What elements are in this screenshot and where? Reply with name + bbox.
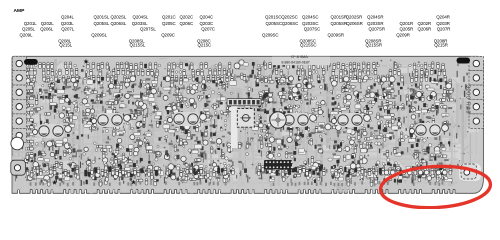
bottom-right terminal: [461, 164, 477, 179]
svg-text:Q205SC: Q205SC: [266, 21, 283, 26]
svg-text:Q205SR: Q205SR: [331, 21, 348, 26]
svg-text:Q215C: Q215C: [198, 42, 212, 47]
svg-text:Q215SC: Q215SC: [300, 42, 317, 47]
component leads: [15, 60, 468, 187]
svg-text:8-880-84180-0E8T: 8-880-84180-0E8T: [282, 61, 310, 65]
svg-text:Q205L: Q205L: [22, 27, 36, 32]
svg-text:Q207L: Q207L: [61, 27, 75, 32]
jumper top-left: [24, 59, 38, 65]
svg-text:Q204C: Q204C: [200, 15, 214, 20]
svg-text:Q207R: Q207R: [437, 27, 451, 32]
left terminal strip: [12, 56, 26, 142]
svg-text:Q215R: Q215R: [434, 42, 448, 47]
svg-text:Q215SL: Q215SL: [130, 42, 146, 47]
star mark 3: [308, 168, 313, 173]
channel SL circuitry: [82, 62, 164, 186]
svg-text:Q201C: Q201C: [162, 15, 176, 20]
svg-text:Q209SC: Q209SC: [262, 33, 279, 38]
svg-text:Q209SL: Q209SL: [91, 33, 107, 38]
svg-text:3000 RA8: 3000 RA8: [465, 85, 471, 114]
svg-text:Q203C: Q203C: [200, 21, 214, 26]
svg-text:Q203SL: Q203SL: [132, 21, 148, 26]
left resistor column: [27, 61, 33, 157]
svg-text:Q205C: Q205C: [162, 21, 176, 26]
svg-text:O* 8 9MA: O* 8 9MA: [291, 54, 308, 59]
svg-text:Q202C: Q202C: [180, 15, 194, 20]
svg-text:Q201R: Q201R: [400, 21, 414, 26]
svg-text:Q201SC: Q201SC: [265, 15, 282, 20]
svg-text:Q203SR: Q203SR: [367, 21, 384, 26]
svg-text:Q204SR: Q204SR: [367, 15, 384, 20]
svg-text:Q209L: Q209L: [20, 33, 34, 38]
svg-text:Q207C: Q207C: [201, 27, 215, 32]
svg-text:Q205SL: Q205SL: [94, 21, 110, 26]
svg-text:AMP: AMP: [14, 8, 26, 14]
svg-text:Q203L: Q203L: [61, 21, 75, 26]
channel C circuitry: [163, 62, 238, 185]
copper traces: [4, 58, 492, 195]
red highlight ellipse: [380, 164, 492, 211]
channel L circuitry: [24, 62, 82, 186]
star mark 4: [84, 59, 89, 64]
svg-text:Q202R: Q202R: [418, 21, 432, 26]
svg-text:Q206R: Q206R: [418, 27, 432, 32]
connector CN row: [227, 99, 261, 106]
svg-text:Q206C: Q206C: [180, 21, 194, 26]
bottom trace fingers: [16, 176, 448, 194]
svg-text:Q202SC: Q202SC: [281, 15, 298, 20]
star mark 1: [52, 180, 57, 185]
svg-text:Q206L: Q206L: [40, 27, 54, 32]
svg-text:Q201L: Q201L: [24, 21, 38, 26]
svg-text:Q206SR: Q206SR: [346, 21, 363, 26]
svg-text:Q215L: Q215L: [59, 42, 73, 47]
star mark 2: [131, 180, 136, 185]
svg-text:Q203SC: Q203SC: [302, 21, 319, 26]
svg-text:Q205R: Q205R: [400, 27, 414, 32]
silkscreen text clearance: [272, 57, 330, 66]
right terminal strip: [469, 56, 484, 128]
jumper top-right: [457, 58, 471, 64]
svg-text:Q206SL: Q206SL: [111, 21, 127, 26]
mounting hole: [11, 137, 24, 150]
svg-text:Q204L: Q204L: [61, 15, 75, 20]
svg-text:Q209SR: Q209SR: [328, 33, 345, 38]
svg-text:Q201SL: Q201SL: [94, 15, 110, 20]
svg-text:Q207SC: Q207SC: [304, 27, 321, 32]
svg-text:Q207SR: Q207SR: [369, 27, 386, 32]
electrolytic capacitor: [270, 112, 286, 128]
channel SR circuitry: [330, 62, 407, 186]
channel SC circuitry: [256, 62, 327, 186]
channel R circuitry: [408, 62, 454, 186]
svg-text:Q202SL: Q202SL: [111, 15, 127, 20]
svg-text:Q203R: Q203R: [436, 21, 450, 26]
bottom-right white clearance: [459, 164, 481, 182]
svg-text:Q209R: Q209R: [396, 33, 410, 38]
svg-text:Q204SC: Q204SC: [302, 15, 319, 20]
svg-text:Q209C: Q209C: [161, 33, 175, 38]
svg-text:Q202L: Q202L: [41, 21, 55, 26]
ellipse-region pad groups: [384, 169, 451, 175]
svg-text:Q201SR: Q201SR: [331, 15, 348, 20]
svg-text:Q202SR: Q202SR: [346, 15, 363, 20]
bottom-left terminal: [11, 160, 26, 175]
svg-text:Q215SR: Q215SR: [366, 42, 383, 47]
inter-block parts: [25, 60, 411, 181]
svg-text:Q204SL: Q204SL: [133, 15, 149, 20]
svg-text:Q206SC: Q206SC: [282, 21, 299, 26]
svg-text:Q204R: Q204R: [436, 15, 450, 20]
svg-text:Q207SL: Q207SL: [140, 27, 156, 32]
IC footprint: [264, 160, 293, 170]
relay footprint: [231, 98, 238, 148]
